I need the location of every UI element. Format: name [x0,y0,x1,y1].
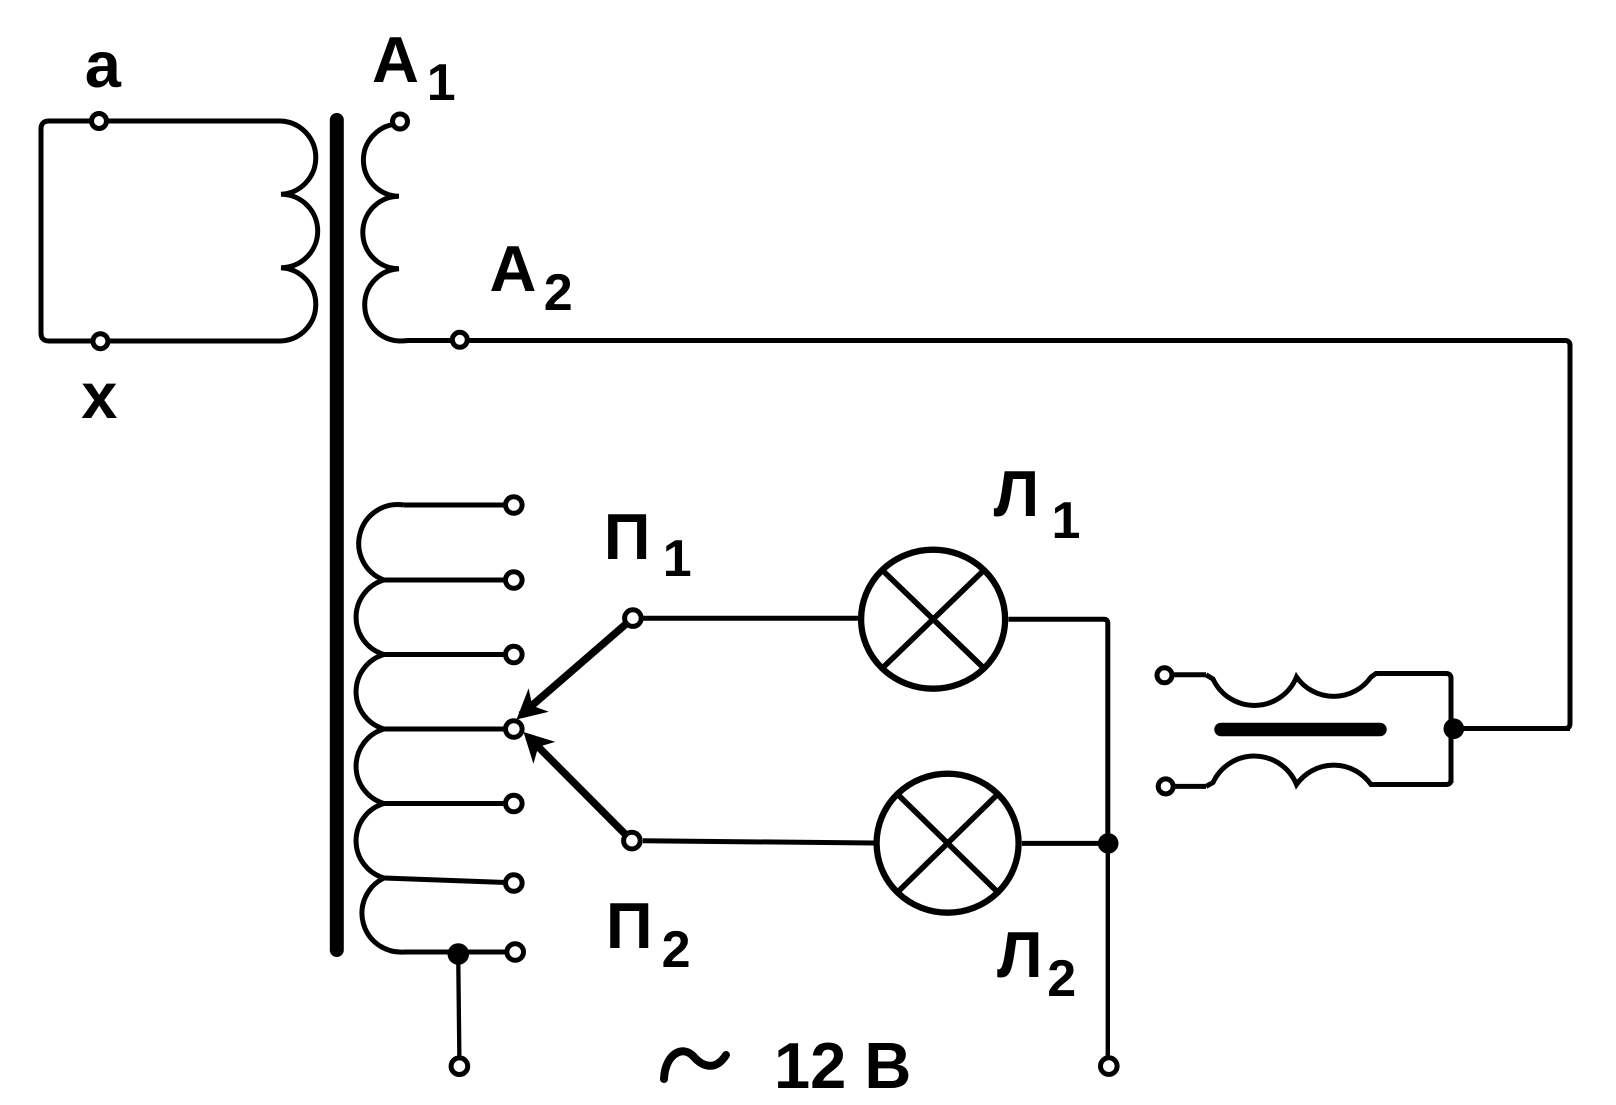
winding A1 secondary (3 semicircles, bulge left) [363,124,399,341]
contact P1 [625,610,642,627]
winding W2 tapped secondary loops [356,504,404,952]
terminal tap1 [506,497,523,514]
label A1 [372,27,419,92]
junction dot lamp L2 right [1098,833,1119,854]
label P2 [606,893,653,958]
winding T2 bottom (2 scallops bulge up) [1206,756,1451,786]
terminal bottom left [451,1058,468,1075]
core T1 (vertical bar) [330,120,344,950]
terminal a [92,114,107,129]
terminal tap2 [506,572,523,589]
wire switch P2 to lamp L2 [643,841,874,843]
wire switch P1 to lamp L1 [643,616,858,621]
core T2 (horizontal bar) [1221,723,1380,737]
winding W1 primary (3 semicircles, bulge right) [281,121,318,341]
terminal tap5 [506,795,523,812]
label P1 [604,504,651,569]
contact P2 [624,832,641,849]
terminal bottom right [1101,1058,1118,1075]
wire tap lines [384,505,514,952]
lamp L1 [861,550,1005,689]
wire A2 long run to right side and down [399,341,1570,729]
lamp L2 [877,774,1019,913]
terminal A2 [452,332,467,347]
label 12V [774,1033,911,1098]
junction dot T2 right [1444,718,1465,739]
terminal T2 bottom [1158,779,1173,794]
terminals (white-filled circles) [92,114,1174,1075]
wire T2 top terminal lead [1174,672,1206,677]
terminal tap7 [507,944,524,961]
terminal tap4 [506,721,523,738]
junction dot bottom tap [448,943,470,965]
label x [81,363,117,428]
terminal tap3 [506,646,523,663]
label L2 [997,922,1043,987]
wire lamp L1 to right vertical, down to bottom terminal [1009,619,1108,853]
label A2 [490,236,537,301]
winding T2 top (2 scallops bulge down) [1206,674,1451,784]
wire bottom tap to terminal [458,954,459,1060]
label a [85,32,121,97]
wire T2 bottom terminal lead [1175,784,1206,789]
terminal x [93,334,108,349]
wire lamp L2 to junction [1022,841,1102,846]
terminal tap6 [506,875,523,892]
wire primary loop a-x [41,121,281,341]
wire junction L2 down to bottom terminal [1106,853,1110,1060]
wire junction to right vertical [1451,726,1570,731]
terminal T2 top [1157,668,1172,683]
label L1 [994,461,1040,526]
switch arm P1 [521,621,630,716]
AC tilde symbol [664,1051,726,1079]
terminal A1 [393,114,408,129]
switch arm P2 [528,737,629,839]
